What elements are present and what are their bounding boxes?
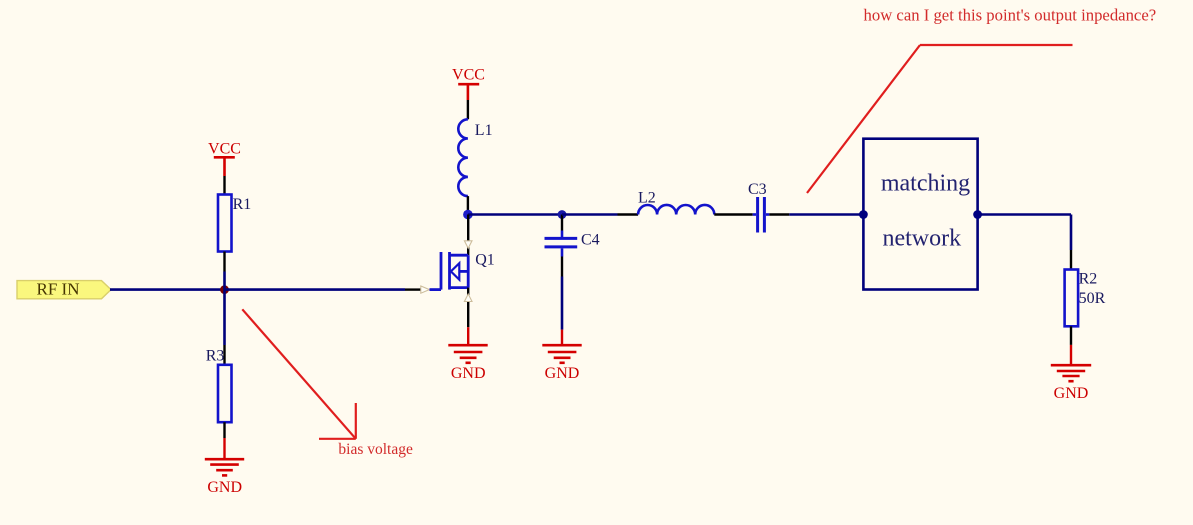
label R3 [206,347,225,364]
ground GND (R2) [1051,365,1091,381]
label 50R [1079,290,1106,307]
svg-text:GND: GND [1054,385,1089,402]
wire matching network to R2 [978,215,1071,251]
svg-text:network: network [882,226,961,252]
node C4 junction [558,210,567,219]
label GND (Q1) [451,365,486,382]
annotation arrow bias voltage [242,309,355,439]
label VCC (above L1) [452,67,485,84]
annotation arrow output impedance [807,45,1073,193]
label RF IN [37,280,80,299]
label GND (R2) [1054,385,1089,402]
inductor L1 [458,100,468,215]
wire C3 to matching network [769,213,863,215]
wire bias node to R3 [223,290,226,345]
wire bias node to Q1 gate [225,286,430,293]
capacitor C4 [545,215,578,277]
label Q1 [475,252,495,269]
svg-text:VCC: VCC [208,140,241,157]
ground GND (Q1) [448,345,487,363]
wire Q1 source to ground [467,327,469,345]
label GND (C4) [545,365,580,382]
svg-text:GND: GND [207,479,242,496]
svg-text:matching: matching [881,171,970,197]
resistor R3 [218,345,232,438]
label output impedance question [864,5,1157,24]
node matching network output [973,210,982,219]
svg-text:GND: GND [451,365,486,382]
node matching network input [859,210,868,219]
svg-text:VCC: VCC [452,67,485,84]
label R2 [1079,270,1098,287]
inductor L2 [638,205,714,215]
svg-text:RF IN: RF IN [37,280,80,299]
svg-text:R3: R3 [206,347,225,364]
svg-text:C4: C4 [581,231,600,248]
node bias junction [220,285,229,294]
label L2 [638,190,656,207]
resistor R2 [1065,250,1079,345]
wire C4 node to L2 [562,213,638,216]
power VCC (above R1) [214,157,235,176]
label C3 [748,181,767,198]
wire C4 to ground [561,277,564,346]
svg-text:C3: C3 [748,181,767,198]
label R1 [233,196,252,213]
label matching network [881,171,970,252]
label L1 [475,122,493,139]
svg-text:R1: R1 [233,196,252,213]
svg-text:how can I get this point's out: how can I get this point's output inpeda… [864,5,1157,24]
ground GND (C4) [542,345,581,363]
wire L2 to C3 [714,213,752,215]
svg-text:L2: L2 [638,190,656,207]
wire R1 to bias node [223,272,226,290]
node drain junction [463,210,473,220]
resistor R1 [218,176,232,272]
wire RF IN to bias node [110,288,225,291]
label C4 [581,231,600,248]
block matching network [863,139,977,290]
svg-text:R2: R2 [1079,270,1098,287]
svg-text:bias voltage: bias voltage [338,441,413,458]
label VCC (above R1) [208,140,241,157]
transistor Q1 [430,215,473,328]
label bias voltage [338,441,413,458]
wire drain junction to C4 node [468,213,562,216]
ground GND (below R3) [205,438,244,475]
svg-text:GND: GND [545,365,580,382]
power VCC (above L1) [458,84,479,100]
label GND (below R3) [207,479,242,496]
svg-text:50R: 50R [1079,290,1106,307]
port RF IN [17,281,111,299]
wire R2 to ground [1070,345,1072,365]
svg-text:L1: L1 [475,122,493,139]
capacitor C3 [753,197,770,233]
svg-text:Q1: Q1 [475,252,495,269]
